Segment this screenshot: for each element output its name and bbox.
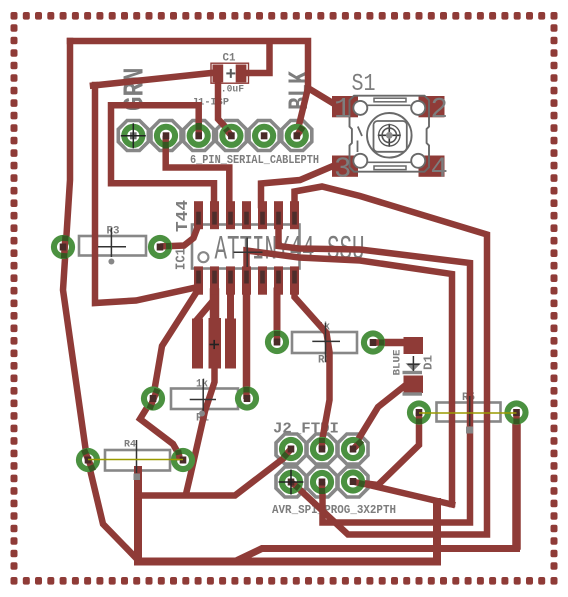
- capacitor C1 body: [211, 63, 249, 83]
- wire: C1 left pad drop to header pad4: [218, 82, 231, 134]
- svg-text:BLUE: BLUE: [392, 350, 404, 376]
- thick bar 2: [209, 318, 222, 369]
- D1 bottom silk bar: [403, 392, 423, 395]
- wire: S1 pad3 to IC pin5: [261, 166, 333, 205]
- switch S1 pad 4: [419, 156, 445, 177]
- D1 cathode bar: [403, 371, 423, 374]
- J2 3x2 header footprint octagons: [276, 434, 306, 464]
- wire: IC pin11 inner diagonal to v3: [247, 251, 453, 505]
- S1 lever: [358, 127, 362, 137]
- resistor R4 body: [105, 450, 170, 471]
- R1 right pad: [235, 386, 259, 410]
- wire: IC pin7 to right vertical v1 down to J2 B1: [291, 187, 487, 535]
- svg-text:IC1: IC1: [174, 248, 190, 270]
- R3 left pad: [51, 235, 75, 259]
- wire: C1 left pad shallow diagonal to left: [93, 73, 216, 86]
- R5 airwire: [419, 412, 517, 414]
- IC1 pin1 marker circle: [198, 252, 208, 262]
- LED D1 cathode pad: [404, 376, 424, 394]
- svg-text:1: 1: [334, 93, 351, 126]
- wire: IC pin8 down to J2 A2: [295, 290, 330, 449]
- svg-text:4: 4: [431, 153, 448, 186]
- D1 origin cross: [412, 356, 414, 371]
- R1 left pad: [141, 386, 165, 410]
- R1 origin cross: [190, 399, 216, 401]
- J2 pad A3: [341, 437, 365, 461]
- wire: IC pin9 down to R2 left pad: [274, 291, 281, 340]
- wire: header pad3 up-around to IC pin2: [111, 105, 214, 205]
- LED D1 symbol triangle: [406, 363, 422, 371]
- svg-text:1k: 1k: [196, 379, 208, 391]
- J1 pad1 origin crosshair: [121, 135, 146, 137]
- IC1 origin cross: [234, 251, 263, 253]
- wire: C1 right pad drop from rail: [247, 44, 270, 73]
- wire: IC pin11 down to R1 right pad: [243, 291, 251, 396]
- R2 left pad: [265, 330, 289, 354]
- wire: IC pin1 to R3 right pad: [160, 226, 198, 247]
- svg-text:2: 2: [431, 93, 448, 126]
- svg-text:AVR_SPI_PROG_3X2PTH: AVR_SPI_PROG_3X2PTH: [272, 504, 396, 517]
- resistor R3 body: [79, 236, 146, 256]
- wire: long left trace L1 down to R4 left pad: [63, 41, 87, 459]
- svg-text:R4: R4: [124, 440, 136, 451]
- svg-text:T44: T44: [174, 200, 193, 232]
- R4 airwire: [88, 459, 183, 461]
- wire: R4 left pad diagonal down to h4: [88, 461, 136, 558]
- svg-text:S1: S1: [352, 71, 376, 98]
- resistor R5 body: [437, 403, 501, 422]
- wire: IC pin13 feed to thick bar1: [198, 293, 215, 319]
- switch S1 pad 1: [332, 96, 358, 117]
- R4 origin line and dot: [136, 440, 138, 473]
- R4 right pad: [171, 448, 195, 472]
- J2 pad B1: [279, 470, 303, 494]
- wire: R1 body slant to mid-left rail: [186, 367, 215, 494]
- J1 header pad 6: [285, 124, 309, 148]
- R3 origin cross and dot: [98, 246, 126, 248]
- wire: mid-left rail to J2 A1: [138, 453, 291, 496]
- S1 corner contact circles: [353, 101, 425, 168]
- J1 6-pin header footprint octagons: [118, 121, 148, 151]
- R4 left pad: [76, 448, 100, 472]
- J1 header pad 2: [154, 124, 178, 148]
- wire: VCC top rail: [70, 41, 336, 105]
- IC1 body outline: [192, 225, 300, 269]
- thick bar 1: [192, 319, 203, 369]
- svg-text:D1: D1: [423, 355, 436, 370]
- R2 right pad: [361, 330, 385, 354]
- J2 pad B2: [310, 470, 334, 494]
- IC1 ATTINY44-SSU smd pads: [194, 201, 299, 294]
- S1 top actuator rect: [374, 98, 406, 102]
- J1 header pad 4: [219, 124, 243, 148]
- R5 right pad: [504, 400, 528, 424]
- J2 pad A1: [279, 437, 303, 461]
- wire: IC pin14 steep diagonal through R1 left pad to R4 right pad: [140, 289, 199, 458]
- wire: IC pin13 straight feed into bar2: [210, 293, 220, 321]
- thick bar 3: [225, 319, 236, 369]
- svg-text:C1: C1: [223, 53, 236, 65]
- R5 left pad: [407, 400, 431, 424]
- capacitor C1 pads: [213, 65, 224, 83]
- wire: IC pin6 inner diagonal to v2 down to J2 B2: [279, 226, 471, 523]
- S1 center crosshair: [378, 134, 401, 136]
- J1 header pad 1 (GRN): [121, 124, 145, 148]
- svg-text:J2_FTDI: J2_FTDI: [273, 422, 339, 438]
- wire: J2 B3 diagonal up to v3 elbow: [354, 482, 452, 505]
- svg-text:3: 3: [334, 153, 351, 186]
- switch S1 body: [350, 96, 430, 172]
- S1 center button circle: [367, 113, 412, 158]
- wire: R5 left pad to J2 B3: [354, 420, 419, 485]
- J1 header pad 5: [252, 124, 276, 148]
- J2 pad B1 origin crosshair: [279, 481, 304, 483]
- resistor R2 body: [292, 332, 357, 353]
- wire: header pad6 (BLK) up to junction: [297, 90, 308, 134]
- wire: R2 right pad to D1 anode: [373, 339, 412, 347]
- wire: L2 vertical down then to IC pin14: [95, 85, 198, 303]
- wire: D1 cathode to J2 A3: [353, 384, 407, 449]
- J1 header pad 3: [187, 124, 211, 148]
- svg-text:R3: R3: [107, 226, 120, 238]
- S1 bottom actuator rect: [374, 166, 406, 170]
- wire: R5 right pad drop and bottom rail h3: [512, 412, 521, 546]
- C1 polarity plus: [226, 72, 235, 74]
- origin cross on bar2: [210, 344, 220, 346]
- J2 pad B3: [341, 469, 365, 493]
- wire: bottom rail h4 with right riser to B3 diagonal: [138, 470, 437, 562]
- R3 right pad: [148, 235, 172, 259]
- R5 origin line and dot: [469, 396, 471, 426]
- wire: IC pin12 feed to bar3: [227, 291, 234, 321]
- switch S1 pad 2: [419, 96, 445, 117]
- wire: header pad2 to IC pin3: [166, 136, 230, 205]
- S1 center rounded square: [374, 121, 407, 152]
- resistor R1 body: [171, 389, 238, 410]
- LED D1 anode pad: [404, 337, 424, 354]
- R2 origin cross: [312, 340, 340, 342]
- J2 pad A2: [310, 437, 334, 461]
- switch S1 pad 3: [332, 156, 358, 177]
